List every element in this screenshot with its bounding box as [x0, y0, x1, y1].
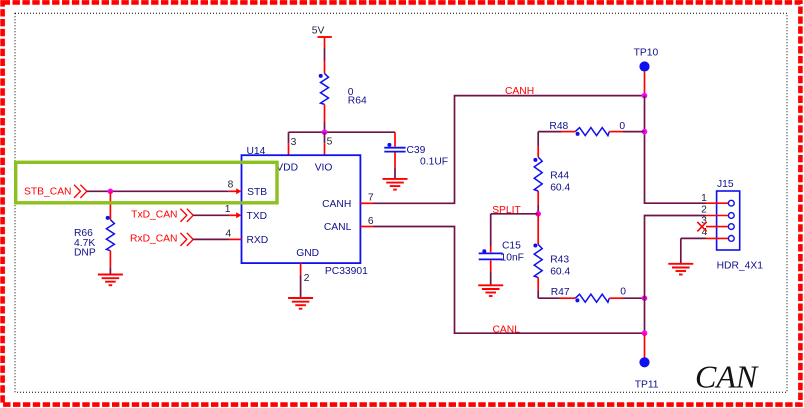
port RxD_CAN	[130, 233, 193, 246]
capacitor C39 0.1UF	[384, 132, 448, 179]
svg-text:1: 1	[225, 204, 231, 215]
svg-text:7: 7	[368, 193, 374, 204]
svg-text:RXD: RXD	[247, 235, 269, 246]
svg-text:TP11: TP11	[635, 380, 659, 391]
svg-text:RxD_CAN: RxD_CAN	[130, 234, 178, 245]
resistor R47 0 ohm	[538, 286, 644, 302]
ground R66	[98, 275, 123, 286]
junction SPLIT	[535, 211, 541, 217]
junction CANH/TP10	[642, 93, 648, 99]
svg-text:60.4: 60.4	[550, 183, 570, 194]
svg-text:TP10: TP10	[634, 48, 659, 59]
IC U14 PC33901	[242, 146, 369, 277]
connector J15 pin 3	[706, 224, 734, 230]
svg-text:CAN: CAN	[695, 358, 759, 394]
svg-text:1: 1	[701, 193, 707, 204]
resistor R48 0 ohm	[538, 121, 644, 136]
port TxD_CAN	[131, 209, 193, 222]
junction rail	[322, 129, 328, 135]
wire TxD_CAN to pin 1	[193, 212, 241, 218]
svg-text:TxD_CAN: TxD_CAN	[131, 209, 177, 220]
connector J15 pin 1	[706, 200, 734, 206]
svg-text:10nF: 10nF	[501, 252, 524, 263]
connector J15 pin 2	[706, 213, 734, 219]
ground C39	[383, 179, 408, 190]
svg-text:R44: R44	[550, 171, 569, 182]
svg-text:0: 0	[619, 121, 625, 132]
wire SPLIT to C15	[491, 214, 539, 253]
svg-text:R43: R43	[550, 255, 569, 266]
power symbol 5V	[312, 26, 332, 49]
svg-text:CANH: CANH	[505, 86, 534, 97]
svg-text:VDD: VDD	[276, 162, 298, 173]
svg-text:U14: U14	[247, 146, 266, 157]
wire rail VDD/VIO/C39	[289, 131, 396, 133]
capacitor C15 10nF	[479, 241, 524, 286]
svg-text:5: 5	[327, 136, 333, 147]
junction CANH/R48	[642, 129, 648, 135]
svg-text:DNP: DNP	[74, 248, 96, 259]
resistor R43 60.4	[533, 214, 570, 298]
wire pin 2 GND	[300, 263, 302, 298]
wire STB_CAN to pin 8	[87, 188, 242, 194]
svg-text:VIO: VIO	[315, 162, 333, 173]
svg-text:R48: R48	[549, 121, 568, 132]
svg-text:5V: 5V	[312, 26, 325, 37]
svg-text:TXD: TXD	[247, 211, 268, 222]
test point TP10	[634, 48, 659, 96]
wire pin 3 VDD	[288, 132, 290, 155]
svg-text:0: 0	[620, 286, 626, 297]
svg-text:CANL: CANL	[493, 324, 521, 335]
junction STB/R66	[108, 189, 114, 195]
port STB_CAN	[24, 185, 87, 198]
svg-text:8: 8	[228, 180, 234, 191]
svg-text:6: 6	[368, 216, 374, 227]
svg-text:CANH: CANH	[322, 199, 351, 210]
svg-text:J15: J15	[717, 179, 734, 190]
resistor R66 4.7K DNP	[74, 191, 114, 274]
test point TP11	[635, 333, 659, 390]
svg-text:60.4: 60.4	[550, 267, 570, 278]
wire pin 5 VIO	[324, 132, 326, 155]
wire R64 to rail	[324, 104, 326, 132]
connector J15 pin 4	[706, 236, 734, 242]
svg-text:CANL: CANL	[324, 222, 352, 233]
svg-text:STB: STB	[247, 187, 267, 198]
resistor R64 0 ohm	[319, 73, 367, 106]
no-connect X on J15 pin 3	[697, 222, 706, 232]
wire CANH vertical to J15 pin 1	[645, 96, 707, 204]
wire CANL from pin 6	[360, 227, 644, 334]
ground U14	[288, 298, 313, 309]
wire 5V to R64	[324, 48, 326, 73]
svg-text:R64: R64	[348, 95, 367, 106]
connector J15 HDR_4X1	[717, 179, 764, 271]
wire CANL vertical from J15 pin 2	[645, 216, 707, 334]
svg-text:0.1UF: 0.1UF	[420, 157, 448, 168]
wire J15 pin 4 to ground	[681, 238, 706, 263]
svg-text:2: 2	[304, 273, 310, 284]
svg-text:R47: R47	[551, 287, 570, 298]
ground J15	[668, 264, 693, 275]
svg-text:4: 4	[225, 229, 231, 240]
wire CANH from pin 7	[360, 96, 644, 204]
svg-text:HDR_4X1: HDR_4X1	[717, 260, 764, 271]
svg-text:C15: C15	[502, 241, 521, 252]
svg-text:GND: GND	[296, 248, 319, 259]
svg-text:3: 3	[291, 137, 297, 148]
ground C15	[478, 285, 503, 296]
resistor R44 60.4	[533, 132, 570, 214]
wire RxD_CAN to pin 4	[193, 238, 241, 240]
svg-text:C39: C39	[407, 145, 426, 156]
junction CANL/TP11	[642, 330, 648, 336]
svg-text:PC33901: PC33901	[325, 266, 368, 277]
svg-text:2: 2	[701, 204, 707, 215]
svg-text:STB_CAN: STB_CAN	[24, 186, 72, 197]
highlight box around STB_CAN	[16, 162, 277, 203]
junction CANL/R47	[642, 295, 648, 301]
